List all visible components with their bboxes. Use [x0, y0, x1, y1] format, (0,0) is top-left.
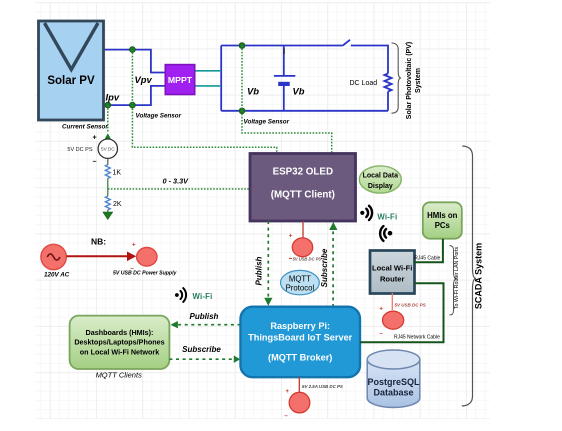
svg-text:ThingsBoard IoT Server: ThingsBoard IoT Server	[248, 332, 353, 342]
svg-text:Voltage Sensor: Voltage Sensor	[244, 119, 290, 126]
svg-text:Voltage Sensor: Voltage Sensor	[136, 113, 182, 120]
svg-text:ESP32 OLED: ESP32 OLED	[273, 167, 333, 178]
svg-text:–: –	[93, 159, 97, 166]
svg-text:+: +	[289, 233, 293, 240]
svg-text:Solar Photovoltaic (PV): Solar Photovoltaic (PV)	[406, 42, 413, 119]
svg-text:Publish: Publish	[255, 256, 264, 285]
svg-text:DC Load: DC Load	[350, 80, 378, 87]
svg-text:HMIs on: HMIs on	[427, 211, 458, 220]
svg-text:+: +	[285, 388, 289, 395]
svg-text:5V USB DC PS: 5V USB DC PS	[395, 303, 426, 308]
svg-text:Router: Router	[380, 275, 405, 284]
svg-text:MQTT Clients: MQTT Clients	[96, 371, 143, 380]
svg-text:+: +	[93, 135, 97, 142]
svg-text:–: –	[379, 330, 383, 337]
svg-text:120V AC: 120V AC	[44, 272, 70, 279]
svg-text:–: –	[284, 413, 288, 420]
svg-text:(MQTT Broker): (MQTT Broker)	[268, 352, 332, 362]
svg-text:Current Sensor: Current Sensor	[62, 124, 108, 131]
svg-text:5V USB DC Power Supply: 5V USB DC Power Supply	[113, 271, 178, 277]
svg-text:RJ45 Cable: RJ45 Cable	[414, 255, 440, 261]
svg-text:Subscribe: Subscribe	[320, 248, 329, 287]
svg-text:MPPT: MPPT	[168, 75, 193, 85]
svg-text:+: +	[379, 306, 383, 313]
svg-text:on Local Wi-Fi Network: on Local Wi-Fi Network	[80, 347, 159, 356]
svg-text:2K: 2K	[113, 201, 122, 208]
svg-text:Raspberry Pi:: Raspberry Pi:	[270, 321, 330, 331]
svg-text:To Wi-Fi Router LAN Ports: To Wi-Fi Router LAN Ports	[454, 246, 460, 309]
svg-text:Desktops/Laptops/Phones: Desktops/Laptops/Phones	[74, 338, 164, 347]
svg-text:Vb: Vb	[247, 86, 259, 97]
svg-text:Dashboards (HMIs):: Dashboards (HMIs):	[86, 328, 154, 337]
svg-text:NB:: NB:	[91, 237, 106, 247]
svg-text:5V USB DC PS: 5V USB DC PS	[293, 257, 322, 262]
svg-text:SCADA System: SCADA System	[474, 243, 484, 309]
svg-text:Vb: Vb	[293, 86, 305, 97]
svg-text:PostgreSQL: PostgreSQL	[367, 377, 420, 387]
svg-text:5V DC: 5V DC	[101, 146, 115, 151]
svg-text:+: +	[132, 242, 136, 249]
svg-text:Protocol: Protocol	[286, 283, 315, 292]
svg-text:Display: Display	[368, 183, 393, 190]
svg-text:Vpv: Vpv	[135, 74, 153, 85]
svg-text:Publish: Publish	[190, 312, 219, 321]
svg-text:RJ45 Network Cable: RJ45 Network Cable	[394, 334, 440, 340]
svg-text:0 - 3.3V: 0 - 3.3V	[163, 177, 190, 186]
svg-text:5V DC PS: 5V DC PS	[67, 147, 92, 153]
svg-text:Database: Database	[373, 387, 413, 397]
svg-text:(MQTT Client): (MQTT Client)	[271, 190, 335, 201]
svg-text:Local Wi-Fi: Local Wi-Fi	[372, 264, 412, 273]
svg-text:MQTT: MQTT	[289, 274, 311, 283]
svg-text:5V 2.5A USB DC PS: 5V 2.5A USB DC PS	[302, 384, 343, 389]
svg-text:PCs: PCs	[435, 221, 451, 230]
svg-text:Solar PV: Solar PV	[47, 75, 95, 87]
svg-text:System: System	[415, 68, 422, 93]
svg-text:1K: 1K	[113, 170, 122, 177]
svg-text:Ipv: Ipv	[106, 92, 120, 103]
svg-text:Wi-Fi: Wi-Fi	[193, 292, 213, 301]
svg-text:Wi-Fi: Wi-Fi	[377, 213, 397, 222]
svg-text:Local Data: Local Data	[363, 173, 399, 180]
svg-text:Subscribe: Subscribe	[182, 345, 221, 354]
